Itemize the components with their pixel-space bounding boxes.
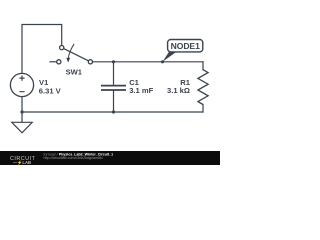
svg-text:NODE1: NODE1 bbox=[171, 41, 200, 51]
wire C1 top lead bbox=[113, 62, 115, 85]
junction at C1 top on top rail bbox=[112, 60, 115, 63]
wire bottom rail bbox=[22, 111, 203, 113]
switch SW1 (SPDT) bbox=[57, 44, 93, 64]
svg-text:3.1 mF: 3.1 mF bbox=[129, 86, 153, 95]
ground symbol bbox=[12, 122, 32, 133]
svg-text:3.1 kΩ: 3.1 kΩ bbox=[167, 86, 190, 95]
resistor R1 zigzag body bbox=[198, 70, 208, 105]
wire right side down to R1 top bbox=[202, 62, 204, 70]
wire C1 bottom lead bbox=[113, 91, 115, 112]
wire V1 negative terminal down to ground bbox=[21, 97, 23, 123]
svg-text:—⚡LAB: —⚡LAB bbox=[13, 160, 31, 165]
wire SW1 left open-throw stub bbox=[50, 61, 56, 63]
junction at V1 bottom on bottom rail bbox=[20, 110, 23, 113]
svg-text:SW1: SW1 bbox=[66, 68, 83, 77]
voltage source V1 body bbox=[10, 73, 33, 96]
wire R1 bottom lead bbox=[202, 105, 204, 113]
wire from V1 positive terminal up and right to SW1 top throw bbox=[22, 25, 62, 74]
wire from SW1 common to top-right corner bbox=[93, 61, 204, 63]
junction at C1 bottom on bottom rail bbox=[112, 110, 115, 113]
capacitor C1 plates bbox=[101, 86, 126, 90]
junction at NODE1 attachment on top rail bbox=[161, 60, 164, 63]
footer attribution bar bbox=[0, 151, 220, 166]
node NODE1 flag bbox=[163, 40, 203, 62]
svg-text:6.31 V: 6.31 V bbox=[39, 86, 62, 95]
svg-text:http://circuitlab.com/c3nb2kdg: http://circuitlab.com/c3nb2kdgnam6k/ bbox=[44, 156, 103, 160]
